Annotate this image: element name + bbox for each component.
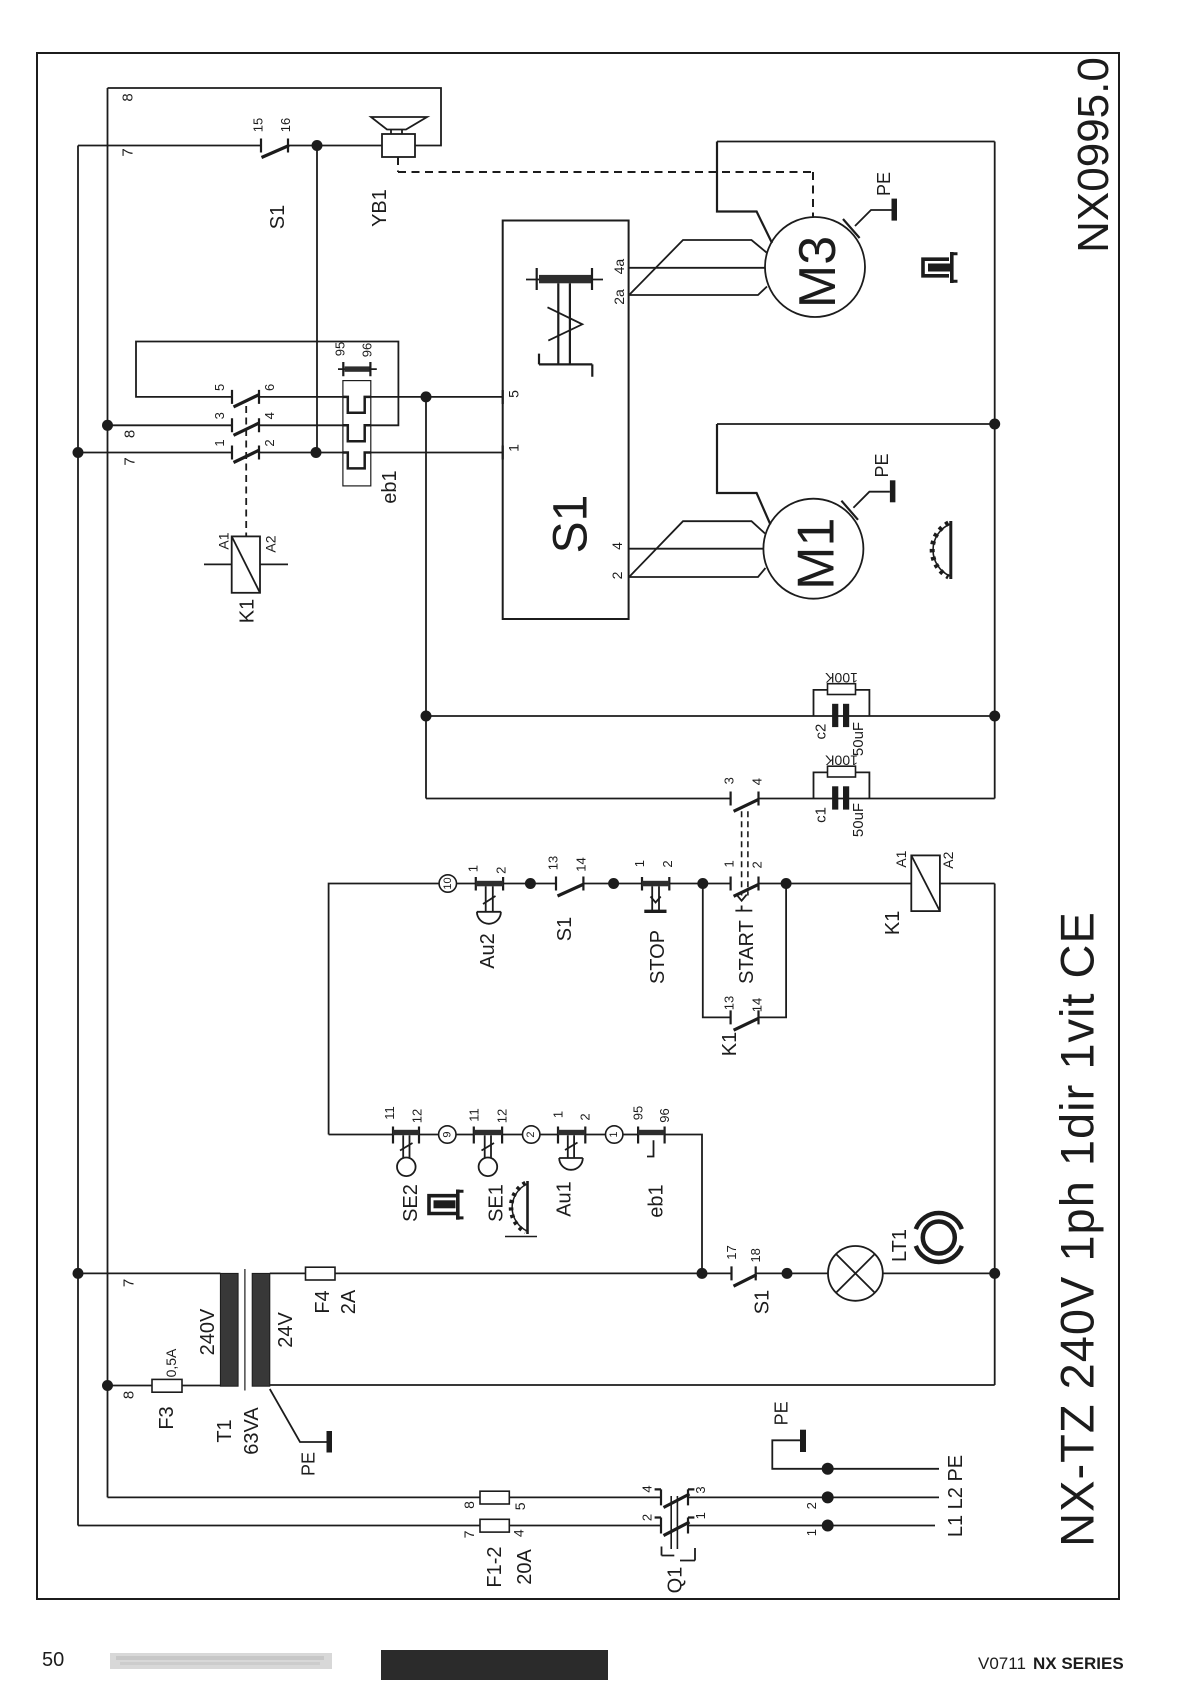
S1 box label	[545, 495, 598, 554]
wire Q1-3 to L2	[688, 1496, 939, 1498]
svg-text:95: 95	[333, 342, 348, 356]
svg-text:3: 3	[212, 412, 227, 419]
F4 rating 2A label	[338, 1289, 360, 1314]
20A label	[514, 1549, 536, 1585]
resistor 100K at c1	[814, 766, 870, 798]
node terminal PE	[822, 1463, 834, 1475]
eb1 pin 95 label	[631, 1106, 646, 1120]
svg-text:8: 8	[122, 430, 139, 438]
wire K1-6 to eb1	[259, 396, 343, 398]
node junction START-K1 branch	[781, 878, 792, 889]
240V label	[197, 1308, 219, 1355]
svg-text:95: 95	[631, 1106, 646, 1120]
right bus lower segment	[994, 884, 996, 1386]
K1 coil A2 label	[940, 851, 956, 868]
K1 holding branch loop	[703, 884, 786, 1018]
wire SE1 to circle2	[502, 1134, 522, 1136]
svg-text:1: 1	[212, 439, 227, 446]
fuse F1	[480, 1491, 509, 1504]
drawing number NX0995.0	[1069, 57, 1118, 253]
svg-text:9: 9	[441, 1131, 453, 1137]
wire F4 to junction	[335, 1272, 732, 1274]
control circuit left corner wire	[329, 884, 440, 1135]
pin 3 label	[212, 412, 227, 419]
wire 7 to transformer primary	[78, 1272, 220, 1274]
svg-text:F3: F3	[156, 1406, 178, 1429]
wire junction down to wire 7 row	[316, 146, 318, 453]
footer black bar	[381, 1650, 608, 1680]
wire 7 label at K1	[122, 457, 139, 465]
pin 4 label START	[749, 778, 764, 785]
node junction STOP-START branch	[697, 878, 708, 889]
SE2 pin 11 label	[382, 1106, 397, 1120]
supply PE label	[771, 1401, 791, 1425]
svg-text:PE: PE	[299, 1452, 319, 1476]
S1 terminal 1 tick	[503, 444, 522, 460]
svg-text:3: 3	[722, 777, 737, 784]
fuse F4	[306, 1267, 336, 1280]
START pushbutton contact 1-2	[731, 877, 759, 911]
svg-text:20A: 20A	[514, 1549, 536, 1585]
node junction c2 bus	[989, 711, 1000, 722]
svg-text:96: 96	[657, 1108, 672, 1122]
svg-text:F4: F4	[312, 1290, 334, 1313]
YB1 label	[369, 189, 391, 227]
svg-text:14: 14	[749, 998, 764, 1012]
K1 aux contact 13-14	[731, 1010, 759, 1030]
svg-text:7: 7	[461, 1530, 477, 1538]
svg-text:PE: PE	[874, 172, 894, 196]
wire STOP to START	[669, 883, 730, 885]
relay coil K1 left	[204, 536, 288, 592]
switch S1 contact 13-14	[556, 877, 584, 897]
resistor 100K at c2	[814, 684, 870, 716]
wire eb1 to S1 terminal 5	[371, 396, 503, 398]
wire K1-2 to eb1	[259, 452, 343, 454]
main switch Q1 pole 2-1	[655, 1518, 695, 1536]
transformer PE ground bar	[327, 1431, 333, 1453]
svg-text:1: 1	[804, 1529, 819, 1536]
50uF label c1	[850, 803, 867, 837]
LT1 label	[889, 1229, 911, 1262]
wire S1-4 to M1	[609, 542, 763, 550]
eb1 pin 96 label	[657, 1108, 672, 1122]
Q1 label	[665, 1567, 687, 1594]
node junction lamp bus	[989, 1268, 1000, 1279]
wire S1 to STOP	[583, 883, 642, 885]
fuse F2	[480, 1519, 509, 1532]
S1 internal cam symbol	[526, 268, 603, 377]
M3 PE label	[874, 172, 894, 196]
svg-text:1: 1	[693, 1512, 708, 1519]
wire fuse F2 to Q1	[509, 1525, 661, 1527]
contactor K1 pole 1-2	[232, 446, 260, 463]
svg-text:Au1: Au1	[553, 1181, 575, 1217]
Q1 pin 3 label	[693, 1486, 708, 1493]
pin 5 label	[212, 384, 227, 391]
wire secondary to fuse F4	[270, 1272, 306, 1274]
svg-text:5: 5	[212, 384, 227, 391]
svg-text:YB1: YB1	[369, 189, 391, 227]
right bus upper segment	[994, 142, 996, 799]
pin 6 label	[262, 384, 277, 391]
wire 8 bus vertical	[107, 88, 109, 1497]
svg-text:7: 7	[120, 148, 137, 156]
Au2 pin 1 label	[466, 865, 481, 872]
svg-text:LT1: LT1	[889, 1229, 911, 1262]
svg-text:15: 15	[251, 118, 266, 132]
wire circle10 to Au2	[457, 883, 476, 885]
STOP pushbutton contact 1-2	[642, 877, 669, 911]
svg-text:11: 11	[466, 1108, 481, 1122]
svg-text:2: 2	[578, 1113, 593, 1120]
svg-text:1: 1	[632, 860, 647, 867]
svg-text:96: 96	[360, 343, 375, 357]
svg-text:2: 2	[660, 860, 675, 867]
pin 96 label	[360, 343, 375, 357]
svg-text:2: 2	[262, 439, 277, 446]
safety row wire left	[329, 1134, 393, 1136]
wire SE2 to circle9	[419, 1134, 439, 1136]
pin 95 label	[333, 342, 348, 356]
svg-text:c2: c2	[813, 724, 830, 740]
c2 label	[813, 724, 830, 740]
pin 17 label	[724, 1245, 739, 1259]
svg-text:2A: 2A	[338, 1289, 360, 1314]
svg-text:2: 2	[640, 1514, 655, 1521]
wire M1 top feed	[717, 424, 770, 525]
brake solenoid YB1	[371, 117, 427, 157]
title NX-TZ 240V 1ph 1dir 1vit CE	[1051, 911, 1104, 1547]
svg-text:4: 4	[262, 412, 277, 419]
Au1 pin 2 label	[578, 1113, 593, 1120]
wire S1-18 to lamp	[756, 1272, 828, 1274]
node junction after S1-14	[608, 878, 619, 889]
F3 label	[156, 1406, 178, 1429]
svg-text:1: 1	[550, 1111, 565, 1118]
node junction wire7 transformer	[73, 1268, 84, 1279]
footer text V0711 NX SERIES	[978, 1654, 1124, 1673]
svg-text:S1: S1	[545, 495, 598, 554]
wire 8 label top	[120, 93, 137, 101]
contactor K1 pole 5-6	[232, 390, 260, 407]
transformer PE label	[299, 1452, 319, 1476]
node terminal L2	[822, 1491, 834, 1503]
wire S1-2 to M1 upper	[629, 521, 765, 577]
svg-text:14: 14	[573, 857, 588, 871]
K1 coil A1 label	[893, 850, 909, 867]
63VA label	[241, 1407, 263, 1455]
wire circle9 to SE1	[456, 1134, 474, 1136]
Q1 pin 4 label	[640, 1485, 655, 1492]
svg-text:T1: T1	[214, 1419, 236, 1442]
K1 linkage dashed	[245, 406, 247, 536]
wire K1-4 to eb1 and loop over to K1-5	[136, 342, 398, 426]
svg-text:A2: A2	[940, 851, 956, 868]
A1 label	[216, 532, 232, 549]
svg-text:A1: A1	[216, 532, 232, 549]
wire M3 top feed	[717, 142, 772, 244]
svg-text:3: 3	[693, 1486, 708, 1493]
wire capacitor branch vertical	[425, 397, 427, 799]
S1 17-18 label	[751, 1290, 773, 1314]
saw blade icon at M1	[932, 521, 951, 579]
svg-text:S1: S1	[554, 917, 576, 941]
transformer T1 secondary winding	[252, 1273, 270, 1386]
pin 4 label	[262, 412, 277, 419]
svg-text:K1: K1	[719, 1032, 741, 1056]
S1 label top	[267, 205, 289, 229]
pin 1 label	[212, 439, 227, 446]
wire F3 to primary	[182, 1385, 220, 1387]
c1 label	[813, 807, 830, 823]
svg-text:13: 13	[722, 996, 737, 1010]
node junction S1-16	[312, 140, 323, 151]
motor M3	[765, 217, 865, 317]
svg-text:STOP: STOP	[647, 930, 669, 984]
svg-text:11: 11	[382, 1106, 397, 1120]
svg-text:4: 4	[511, 1529, 527, 1537]
STOP pin 1 label	[632, 860, 647, 867]
svg-text:NX SERIES: NX SERIES	[1033, 1654, 1124, 1673]
svg-text:5: 5	[506, 390, 522, 398]
M1 PE slash	[841, 492, 890, 520]
SE1 pin 12 label	[495, 1109, 510, 1123]
wire S1-2a to M3 lower	[611, 287, 767, 305]
svg-text:NX-TZ 240V 1ph 1dir 1vit CE: NX-TZ 240V 1ph 1dir 1vit CE	[1051, 911, 1104, 1547]
wire circle1 to eb1 aux	[623, 1134, 638, 1136]
svg-text:50: 50	[42, 1649, 64, 1671]
wire 7 label transformer	[121, 1279, 138, 1287]
pin 16 label	[278, 118, 293, 132]
L2 terminal 2 label	[804, 1502, 819, 1509]
node terminal L1	[822, 1520, 834, 1532]
Q1 linkage	[662, 1496, 696, 1561]
svg-text:17: 17	[724, 1245, 739, 1259]
svg-text:7: 7	[121, 1279, 138, 1287]
START pin 1 label	[722, 860, 737, 867]
wire c2 row	[426, 715, 995, 717]
node junction wire5 to capacitor branch	[421, 391, 432, 402]
node junction 24V feed	[697, 1268, 708, 1279]
svg-text:PE: PE	[771, 1401, 791, 1425]
eb1 label	[379, 470, 401, 503]
Q1 pin 1 label	[693, 1512, 708, 1519]
motor M1	[763, 499, 863, 599]
pin 2 label	[262, 439, 277, 446]
transformer PE tap wire	[270, 1389, 327, 1442]
100K label c1	[824, 752, 857, 768]
node junction before lamp	[782, 1268, 793, 1279]
svg-text:PE: PE	[872, 453, 892, 477]
wire 7 bus vertical	[77, 146, 79, 1526]
svg-text:100K: 100K	[824, 670, 857, 686]
K1 pin 14 label	[749, 998, 764, 1012]
svg-text:SE2: SE2	[400, 1184, 422, 1222]
capacitor c1	[832, 786, 849, 809]
svg-text:2: 2	[804, 1502, 819, 1509]
wire S1-4a to M3	[611, 259, 765, 275]
S1 terminal 5 tick	[503, 390, 522, 404]
svg-text:eb1: eb1	[379, 470, 401, 503]
svg-text:2: 2	[749, 861, 764, 868]
pin 18 label	[748, 1248, 763, 1262]
terminal circle 1	[606, 1126, 623, 1143]
K1 pin 13 label	[722, 996, 737, 1010]
svg-text:K1: K1	[882, 911, 904, 935]
key switch SE1 contact 11-12	[474, 1127, 502, 1177]
switch box S1	[503, 221, 629, 620]
wire circle2 to Au1	[540, 1134, 558, 1136]
wire lamp to right bus	[883, 1272, 995, 1274]
contactor K1 pole 3-4	[232, 418, 260, 435]
terminal circle 2	[523, 1126, 540, 1143]
main switch Q1 pole 4-3	[655, 1489, 695, 1507]
svg-text:M1: M1	[787, 518, 845, 590]
wire S1-2a to M3 upper	[629, 240, 766, 295]
transformer T1 primary winding	[220, 1273, 238, 1386]
START label	[736, 920, 758, 984]
emergency stop Au2 contact 1-2	[476, 877, 503, 924]
SE2 label	[400, 1184, 422, 1222]
START linkage dashed	[742, 811, 748, 895]
svg-text:V0711: V0711	[978, 1654, 1026, 1673]
node junction M1 bus	[989, 419, 1000, 430]
emergency stop Au1 contact 1-2	[558, 1127, 585, 1170]
START pin 2 label	[749, 861, 764, 868]
F3 rating 0,5A label	[163, 1348, 179, 1377]
thermal overload eb1 block	[343, 381, 371, 486]
SE1 label	[485, 1184, 507, 1222]
svg-text:A2: A2	[263, 535, 279, 552]
F4 label	[312, 1290, 334, 1313]
svg-text:1: 1	[608, 1131, 620, 1137]
svg-text:12: 12	[495, 1109, 510, 1123]
Au2 label	[477, 933, 499, 969]
Au1 label	[553, 1181, 575, 1217]
svg-text:8: 8	[120, 93, 137, 101]
key switch SE2 contact 11-12	[393, 1127, 419, 1177]
wire eb1 to S1 terminal 1	[371, 452, 503, 454]
svg-text:A1: A1	[893, 850, 909, 867]
svg-text:1: 1	[466, 865, 481, 872]
saw blade icon at SE1	[505, 1181, 537, 1237]
wire top bus to M3	[717, 141, 995, 143]
svg-text:1: 1	[722, 860, 737, 867]
SE1 pin 11 label	[466, 1108, 481, 1122]
svg-text:7: 7	[122, 457, 139, 465]
fuse F3	[152, 1379, 182, 1392]
svg-text:0,5A: 0,5A	[163, 1348, 179, 1377]
supply wire 8 row	[108, 1496, 481, 1498]
svg-text:4: 4	[609, 542, 625, 550]
supply PE ground bar	[800, 1430, 806, 1452]
M3 PE ground bar	[892, 199, 898, 221]
node junction wire7 row	[73, 447, 84, 458]
svg-text:2: 2	[609, 571, 625, 579]
svg-text:F1-2: F1-2	[484, 1546, 506, 1587]
STOP pin 2 label	[660, 860, 675, 867]
wire 8 label supply	[461, 1501, 477, 1509]
svg-text:Q1: Q1	[665, 1567, 687, 1594]
wire 8 top loop to YB1	[108, 88, 442, 146]
eb1 aux label	[646, 1184, 668, 1217]
svg-text:2: 2	[493, 867, 508, 874]
Au2 pin 2 label	[493, 867, 508, 874]
svg-text:c1: c1	[813, 807, 830, 823]
svg-text:SE1: SE1	[485, 1184, 507, 1222]
terminal circle 10	[439, 875, 456, 892]
svg-text:5: 5	[512, 1502, 528, 1510]
node junction wire8 row	[102, 420, 113, 431]
switch S1 contact 17-18	[732, 1266, 757, 1286]
transformer core	[244, 1269, 246, 1391]
A2 label	[263, 535, 279, 552]
planer tool icon at M3	[923, 252, 958, 283]
indicator lamp icon	[916, 1213, 962, 1262]
svg-text:S1: S1	[267, 205, 289, 229]
M3 PE slash	[843, 210, 892, 238]
50uF label c2	[850, 722, 867, 756]
svg-text:4: 4	[749, 778, 764, 785]
svg-text:18: 18	[748, 1248, 763, 1262]
100K label c2	[824, 670, 857, 686]
M1 PE ground bar	[890, 480, 896, 502]
svg-text:S1: S1	[751, 1290, 773, 1314]
svg-text:eb1: eb1	[646, 1184, 668, 1217]
relay coil K1 main	[911, 855, 940, 911]
supply wire 7 row	[78, 1525, 480, 1527]
wire 4 label supply	[511, 1529, 527, 1537]
svg-text:1: 1	[506, 444, 522, 452]
pin 3 label START	[722, 777, 737, 784]
L1 terminal 1 label	[804, 1529, 819, 1536]
wire START to K1 coil	[759, 883, 912, 885]
24V return wire	[270, 1384, 995, 1386]
wire K1 coil to right bus	[940, 883, 995, 885]
svg-text:8: 8	[121, 1391, 138, 1399]
svg-text:100K: 100K	[824, 752, 857, 768]
svg-text:M3: M3	[789, 236, 847, 308]
wire 8 label transformer	[121, 1391, 138, 1399]
wire 7 top segment to S1 contact	[78, 145, 261, 147]
pin 15 label	[251, 118, 266, 132]
planer tool icon at SE2	[429, 1190, 464, 1220]
capacitor c2	[832, 704, 849, 727]
switch S1 contact 15-16	[261, 139, 289, 158]
wire S1-2 to M1 lower	[609, 568, 766, 579]
S1 contact label	[554, 917, 576, 941]
L1 L2 PE terminals label	[945, 1455, 967, 1537]
STOP label	[647, 930, 669, 984]
svg-text:240V: 240V	[197, 1308, 219, 1355]
pin 13 label	[546, 856, 561, 870]
wire Q1-1 to L1	[688, 1525, 935, 1527]
svg-text:4: 4	[640, 1485, 655, 1492]
PE supply wire	[772, 1440, 939, 1469]
svg-text:12: 12	[410, 1109, 425, 1123]
wire 5 label supply	[512, 1502, 528, 1510]
pin 14 label	[573, 857, 588, 871]
wire M1 to right bus	[717, 423, 995, 425]
lamp LT1	[828, 1246, 883, 1301]
wire 7 label top	[120, 148, 137, 156]
wire 8 label at K1	[122, 430, 139, 438]
24V label	[275, 1312, 297, 1348]
svg-text:24V: 24V	[275, 1312, 297, 1348]
svg-text:NX0995.0: NX0995.0	[1069, 57, 1118, 253]
eb1 aux contact 95-96	[338, 362, 377, 376]
